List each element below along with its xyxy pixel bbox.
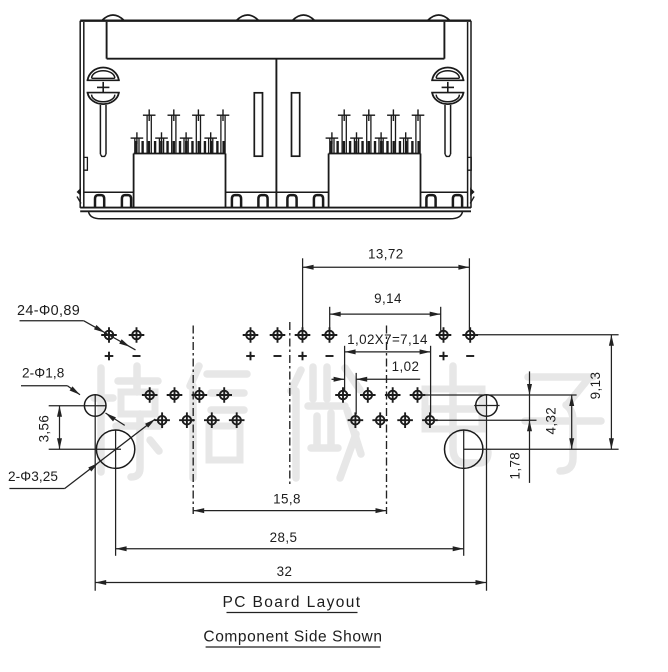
centerline left port — [192, 326, 194, 515]
dimension 3,56 — [36, 406, 62, 449]
left EMI ground spring and pin — [87, 68, 120, 157]
dimension 1,78 — [508, 371, 533, 483]
svg-text:Component Side Shown: Component Side Shown — [203, 629, 382, 646]
mounting hole 3.25mm right — [445, 430, 483, 468]
mounting hole 1.8mm right — [476, 395, 498, 417]
svg-text:13,72: 13,72 — [368, 247, 404, 262]
mounting hole 1.8mm left — [84, 395, 106, 417]
right contact block — [329, 141, 421, 208]
housing bottom tray — [89, 211, 463, 219]
svg-text:32: 32 — [277, 564, 293, 579]
left board-lock claw — [77, 188, 81, 204]
centerline board middle — [289, 322, 291, 487]
left contact block with comb teeth — [134, 141, 226, 208]
svg-text:24-Φ0,89: 24-Φ0,89 — [17, 303, 80, 319]
top shell bumps — [102, 15, 450, 20]
dimension 1,02 — [332, 359, 421, 415]
watermark (faint gray CJK brand text) — [94, 366, 601, 478]
svg-text:3,56: 3,56 — [36, 415, 51, 443]
wall latch tabs — [84, 157, 471, 170]
shield mounting feet tabs — [95, 195, 462, 208]
svg-text:PC Board Layout: PC Board Layout — [222, 594, 361, 611]
dimension 9,14 — [330, 291, 441, 331]
svg-text:1,78: 1,78 — [508, 452, 523, 480]
left contact pins with cross tips — [131, 109, 230, 153]
caption: PC Board Layout — [222, 594, 361, 613]
svg-text:9,14: 9,14 — [374, 291, 402, 306]
right contact pins — [326, 109, 425, 153]
svg-text:28,5: 28,5 — [270, 530, 298, 545]
svg-text:1,02X7=7,14: 1,02X7=7,14 — [347, 332, 428, 347]
caption: Component Side Shown — [203, 629, 382, 648]
svg-text:9,13: 9,13 — [588, 372, 603, 400]
svg-text:15,8: 15,8 — [273, 492, 301, 507]
dimension 13,72 — [303, 247, 470, 332]
dimension 15,8 — [193, 492, 386, 514]
label 24-phi0,89 — [17, 303, 136, 350]
label 2-phi3,25 — [8, 417, 157, 488]
center divider wall — [275, 59, 277, 208]
centerline right port — [386, 326, 388, 515]
svg-text:4,32: 4,32 — [544, 407, 559, 435]
dimension 4,32 — [544, 395, 575, 449]
dimension 9,13 — [588, 335, 614, 449]
signal pads upper row — [142, 387, 425, 403]
LED pin pads row — [101, 327, 478, 343]
right board-lock claw — [470, 188, 474, 204]
right EMI ground spring and pin — [431, 68, 464, 157]
LED polarity signs — [105, 352, 475, 361]
shield bottom edge line — [84, 191, 468, 193]
svg-text:1,02: 1,02 — [392, 359, 420, 374]
label 2-phi1,8 — [21, 366, 125, 426]
mounting hole 3.25mm left — [96, 430, 134, 468]
dimension 1,02X7=7,14 — [345, 332, 431, 416]
hole crosshair and extension lines — [49, 335, 619, 591]
svg-text:2-Φ1,8: 2-Φ1,8 — [22, 366, 64, 381]
base standoff lines — [80, 207, 471, 209]
svg-text:2-Φ3,25: 2-Φ3,25 — [8, 469, 58, 484]
signal pads lower row — [154, 412, 437, 428]
inner slots — [254, 93, 262, 156]
connector shield outline — [80, 21, 471, 208]
dimension 28,5 — [116, 530, 464, 551]
dimension 32 — [95, 564, 486, 585]
